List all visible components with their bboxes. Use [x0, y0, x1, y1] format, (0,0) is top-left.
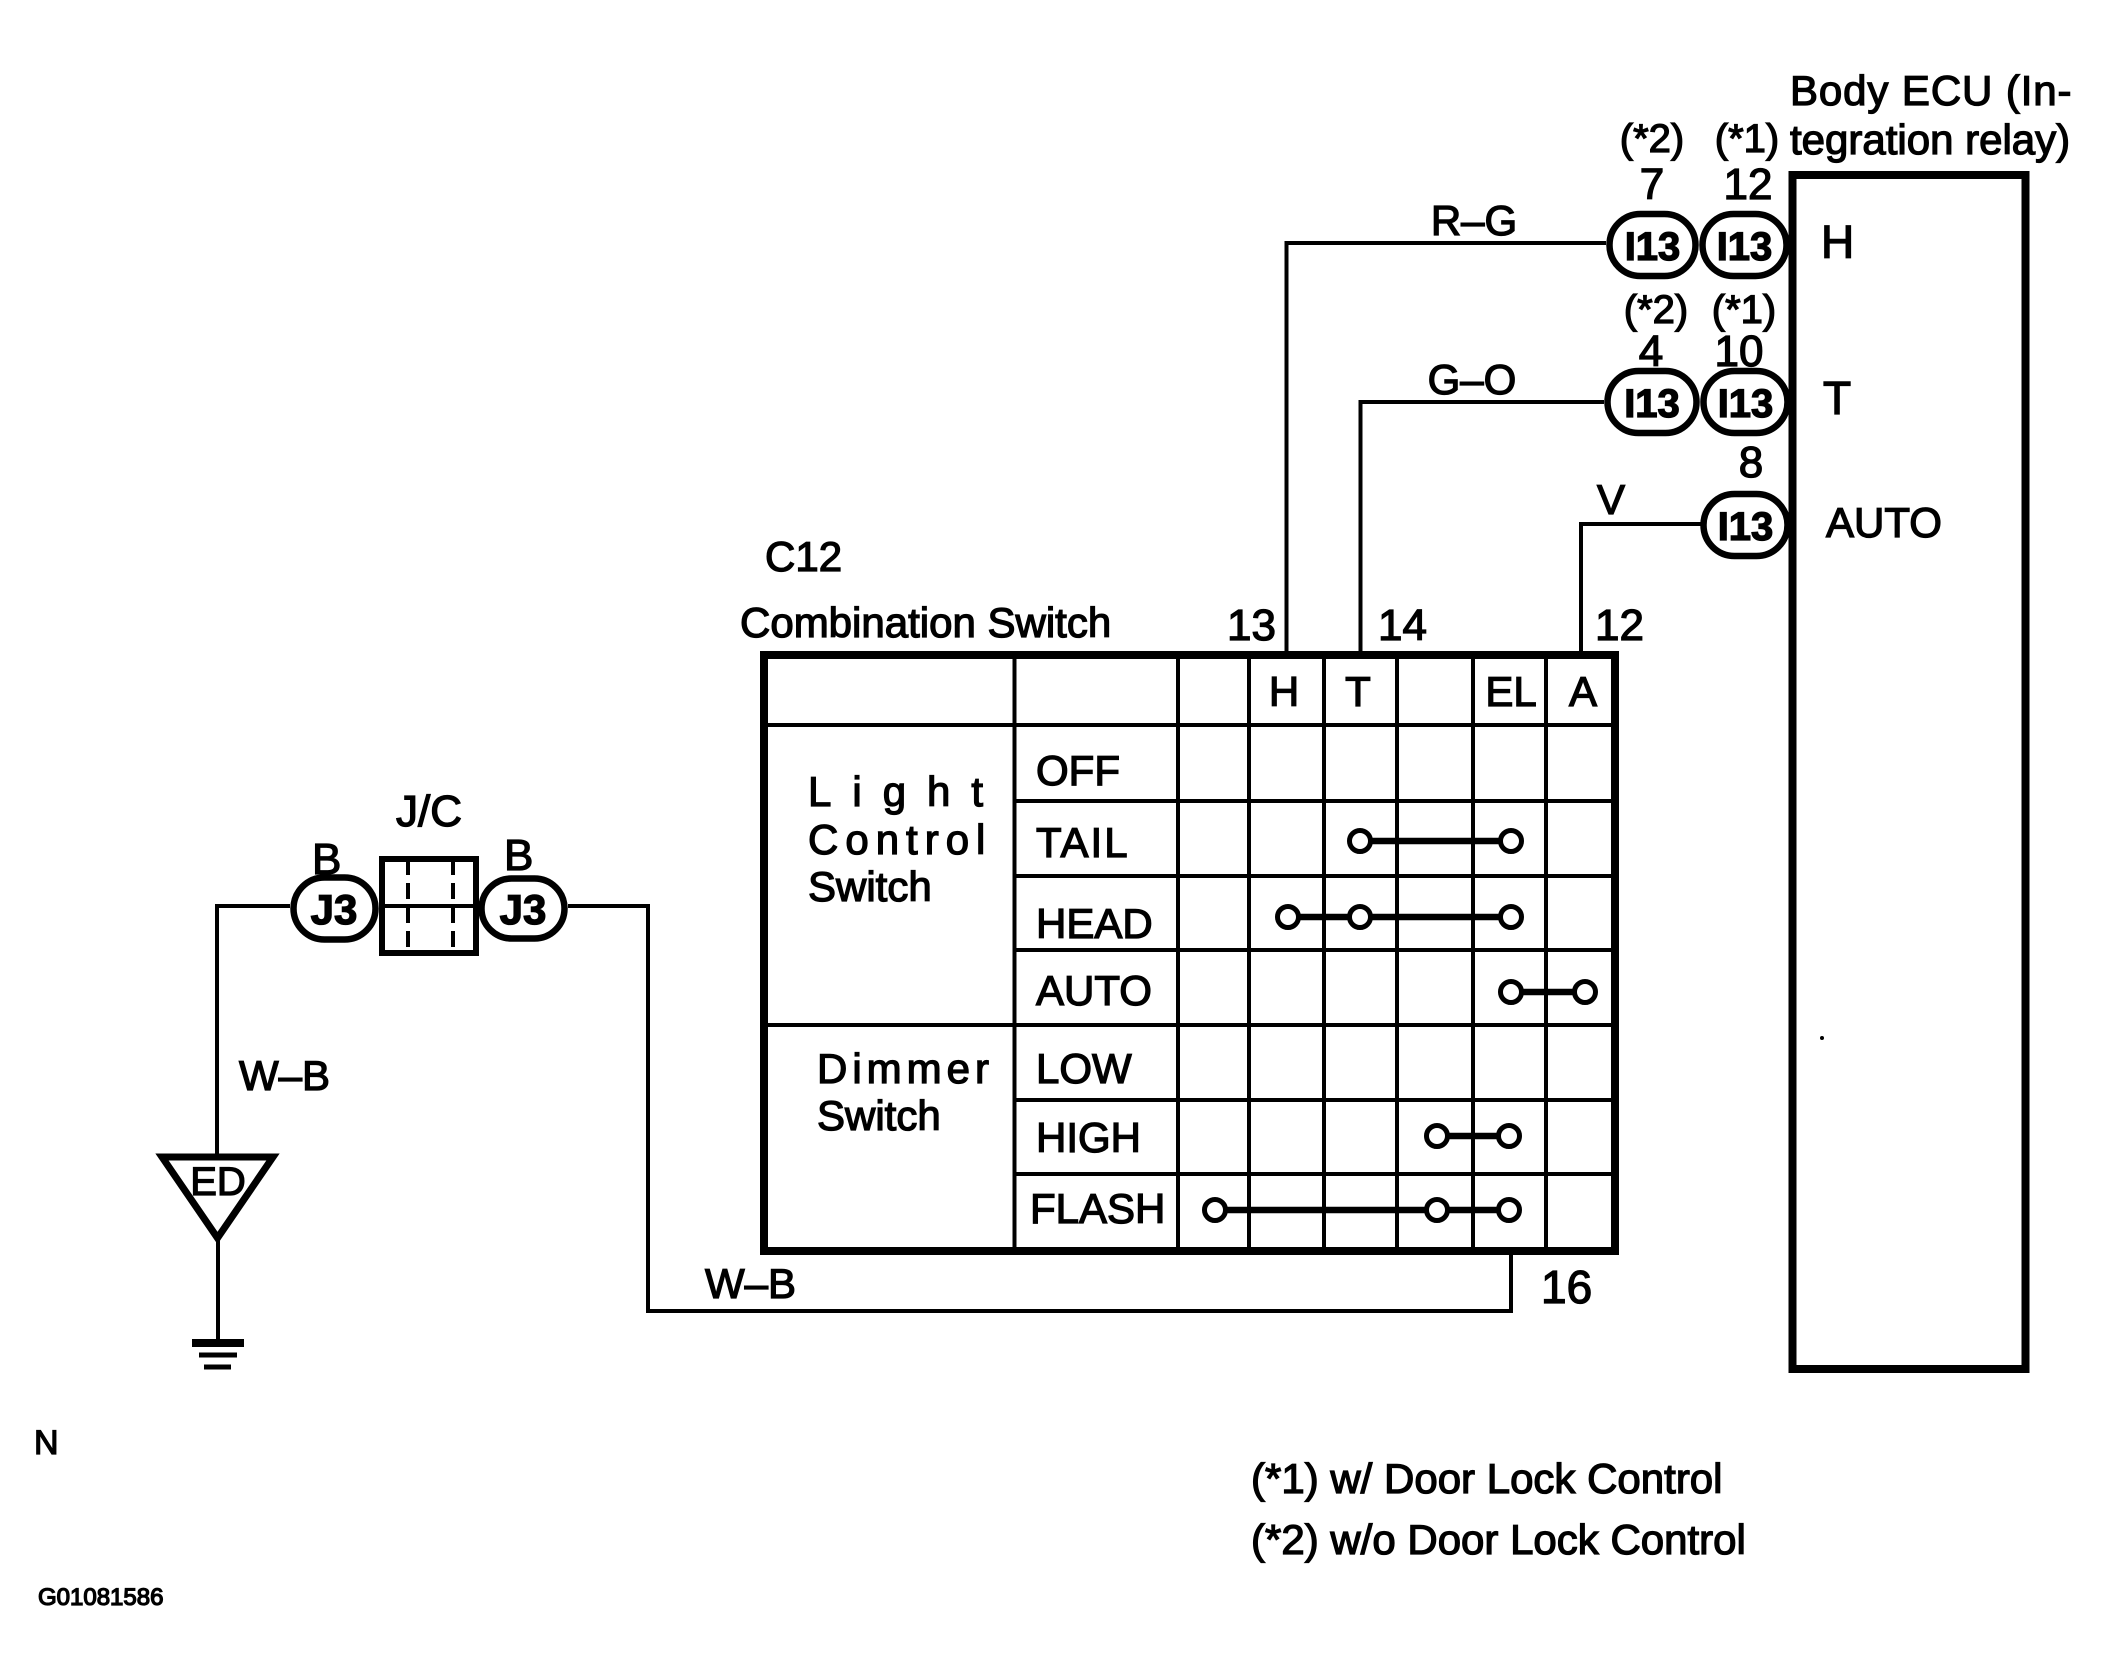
svg-text:I13: I13 [1625, 225, 1681, 269]
svg-text:12: 12 [1724, 160, 1773, 209]
svg-text:tegration relay): tegration relay) [1790, 116, 2070, 163]
svg-text:10: 10 [1715, 327, 1764, 376]
svg-text:I13: I13 [1718, 505, 1774, 549]
svg-text:AUTO: AUTO [1826, 499, 1942, 546]
svg-text:AUTO: AUTO [1036, 967, 1152, 1014]
svg-text:TAIL: TAIL [1036, 819, 1130, 866]
svg-text:T: T [1345, 668, 1371, 715]
svg-text:Switch: Switch [808, 863, 932, 910]
svg-text:B: B [312, 835, 341, 884]
svg-text:W–B: W–B [239, 1052, 330, 1099]
svg-text:FLASH: FLASH [1030, 1185, 1165, 1232]
svg-text:W–B: W–B [705, 1260, 796, 1307]
svg-text:HEAD: HEAD [1036, 900, 1153, 947]
svg-text:J/C: J/C [396, 787, 462, 836]
svg-text:Switch: Switch [817, 1092, 941, 1139]
svg-text:J3: J3 [500, 886, 547, 933]
svg-text:13: 13 [1227, 601, 1276, 650]
svg-text:(*2): (*2) [1624, 288, 1688, 332]
svg-text:J3: J3 [311, 886, 358, 933]
svg-text:C12: C12 [765, 533, 842, 580]
svg-text:(*1): (*1) [1715, 117, 1779, 161]
svg-text:(*2): (*2) [1620, 117, 1684, 161]
svg-text:8: 8 [1739, 438, 1763, 487]
svg-text:12: 12 [1595, 601, 1644, 650]
svg-text:G–O: G–O [1428, 356, 1517, 403]
svg-text:Dimmer: Dimmer [817, 1045, 994, 1092]
svg-text:I13: I13 [1717, 225, 1773, 269]
svg-text:Body ECU (In-: Body ECU (In- [1790, 67, 2072, 114]
svg-text:Control: Control [808, 816, 992, 863]
svg-text:7: 7 [1640, 160, 1664, 209]
svg-text:LOW: LOW [1036, 1045, 1132, 1092]
svg-text:(*1): (*1) [1712, 288, 1776, 332]
svg-text:ED: ED [190, 1160, 246, 1204]
svg-text:OFF: OFF [1036, 747, 1120, 794]
svg-text:N: N [34, 1424, 59, 1462]
svg-text:I13: I13 [1624, 382, 1680, 426]
svg-text:(*1) w/ Door Lock Control: (*1) w/ Door Lock Control [1251, 1455, 1723, 1502]
svg-text:B: B [504, 831, 533, 880]
svg-text:H: H [1269, 668, 1299, 715]
svg-text:4: 4 [1639, 327, 1663, 376]
svg-text:T: T [1823, 372, 1851, 424]
svg-text:HIGH: HIGH [1036, 1114, 1141, 1161]
svg-text:14: 14 [1378, 601, 1427, 650]
svg-text:Light: Light [808, 768, 1004, 815]
svg-text:Combination Switch: Combination Switch [740, 599, 1111, 646]
svg-text:EL: EL [1485, 668, 1536, 715]
svg-text:R–G: R–G [1431, 197, 1517, 244]
svg-text:I13: I13 [1718, 382, 1774, 426]
svg-text:A: A [1569, 668, 1597, 715]
svg-text:(*2) w/o Door Lock Control: (*2) w/o Door Lock Control [1251, 1516, 1746, 1563]
svg-text:H: H [1821, 216, 1854, 268]
svg-text:V: V [1597, 476, 1625, 523]
svg-text:G01081586: G01081586 [38, 1584, 163, 1611]
svg-text:16: 16 [1541, 1261, 1592, 1313]
